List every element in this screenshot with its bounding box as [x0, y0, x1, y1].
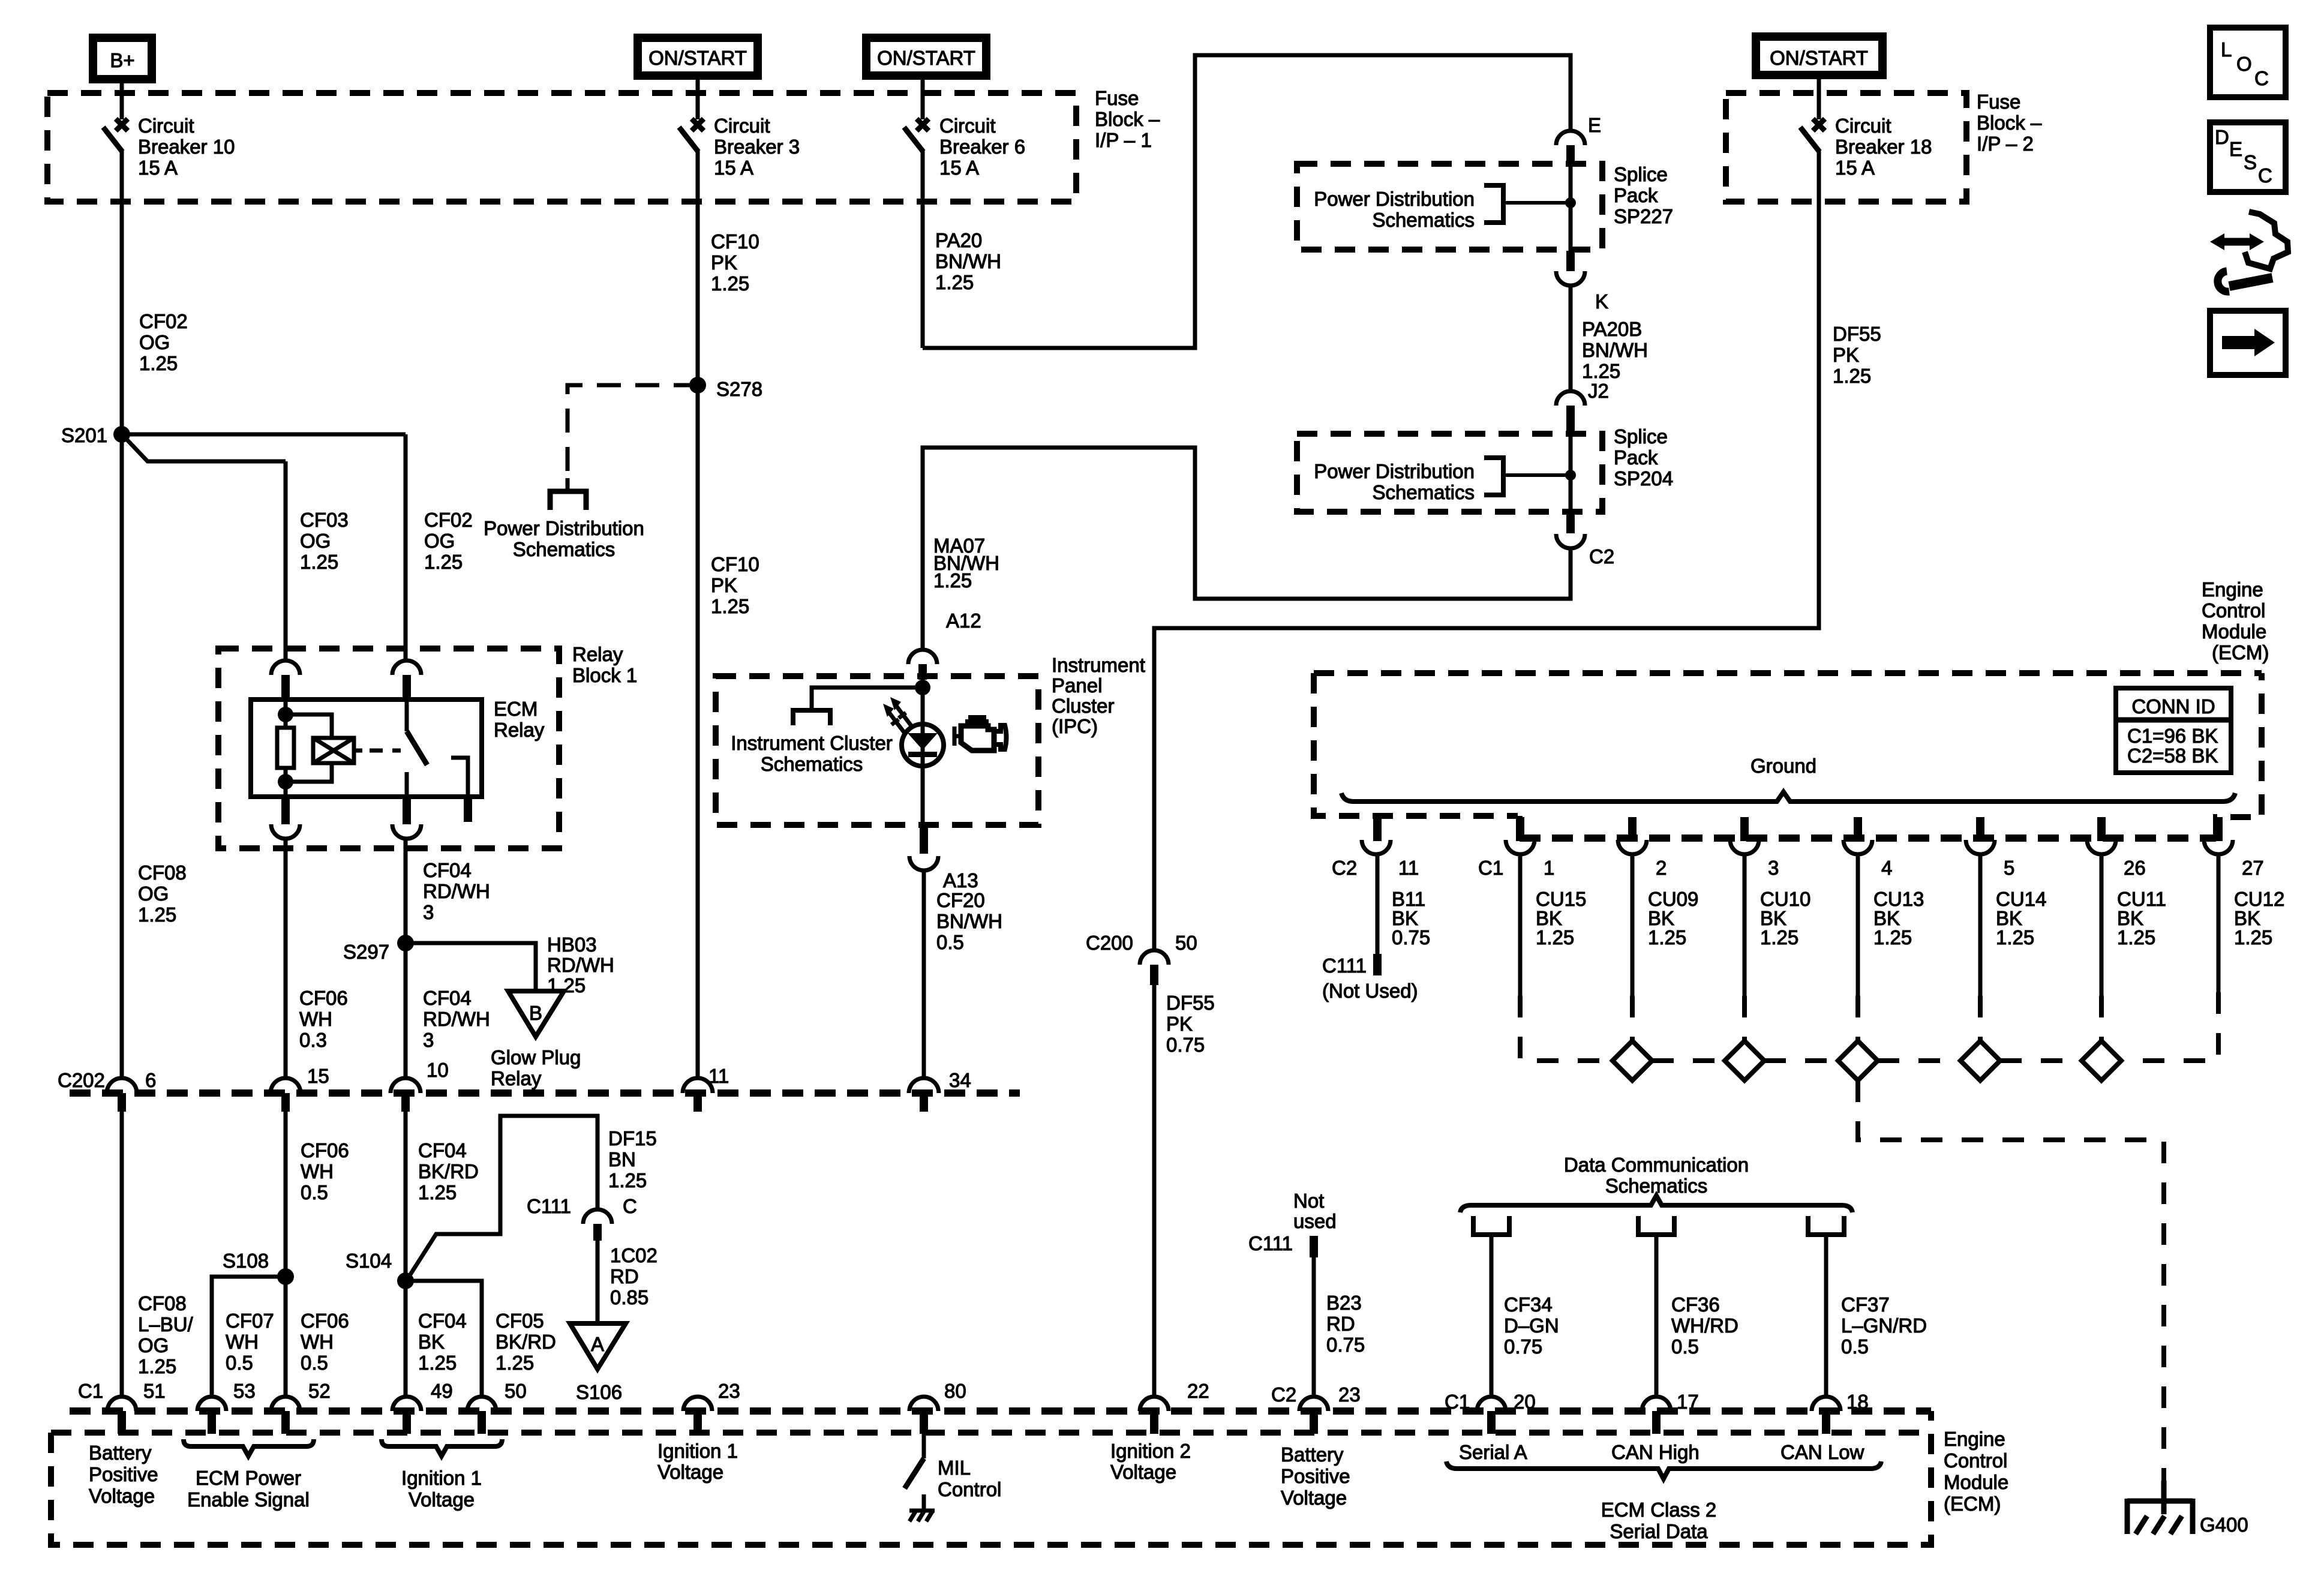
svg-text:S108: S108 — [223, 1250, 269, 1272]
LED cathode bar — [908, 752, 937, 757]
svg-text:G400: G400 — [2200, 1514, 2248, 1536]
relay switch blade — [407, 731, 427, 765]
MIL indicator LED circle — [902, 724, 944, 766]
connector pin into relay (CF02 side) — [392, 661, 421, 700]
connector J2 — [1556, 391, 1585, 434]
svg-text:Enable Signal: Enable Signal — [187, 1488, 310, 1511]
wire CF03 OG down to relay block — [284, 461, 288, 661]
svg-text:E: E — [1588, 114, 1601, 136]
reference fork symbol (IPC) — [793, 710, 830, 725]
svg-text:C1: C1 — [78, 1380, 103, 1402]
relay coil feed wire — [284, 700, 288, 728]
connector pin out of relay (switch output) — [392, 798, 421, 839]
connector C1 pin 51 — [107, 1397, 136, 1434]
svg-text:C202: C202 — [58, 1069, 105, 1091]
brace ECM class 2 serial data — [1446, 1461, 1881, 1479]
connector C202 pin 6 — [107, 1078, 137, 1112]
svg-text:Ground: Ground — [1750, 755, 1816, 777]
svg-text:ECM Power: ECM Power — [196, 1467, 301, 1489]
icon forward arrow box — [2210, 311, 2286, 375]
svg-text:C: C — [2254, 67, 2269, 89]
svg-text:E: E — [2229, 138, 2242, 160]
connector C1 pin 80 — [909, 1397, 938, 1434]
wire CF04 BK S104 to pin 49 — [404, 1281, 408, 1397]
LED light arrows — [883, 697, 912, 733]
svg-text:Serial A: Serial A — [1459, 1441, 1527, 1463]
connector pin into relay (CF03 side) — [271, 661, 300, 700]
connector C1 pin 23 — [683, 1397, 712, 1434]
wire CF34 D-GN to pin 20 — [1490, 1235, 1494, 1397]
splice diamond pin 26 — [2082, 1041, 2121, 1080]
B11 end stub — [1373, 954, 1382, 975]
svg-text:51: 51 — [143, 1380, 166, 1402]
circuit breaker 6 — [904, 79, 929, 202]
svg-text:49: 49 — [431, 1380, 453, 1402]
reference fork serial A — [1473, 1216, 1509, 1235]
connector C202 row — [70, 1089, 1020, 1097]
CONN ID box — [2116, 688, 2231, 773]
svg-text:ON/START: ON/START — [1770, 47, 1868, 69]
svg-text:18: 18 — [1846, 1391, 1869, 1413]
svg-text:34: 34 — [949, 1069, 971, 1091]
connector C202 pin 10 — [391, 1078, 421, 1112]
reference fork CAN high — [1638, 1216, 1674, 1235]
reference fork CAN low — [1808, 1216, 1844, 1235]
junction dot SP227 — [1565, 197, 1576, 208]
power terminal ON/START (circuit breaker 18 feed) — [1756, 37, 1882, 75]
wire CF06 WH pin 15 to S108 — [284, 1112, 288, 1277]
svg-text:80: 80 — [944, 1380, 966, 1402]
wire CF02 OG from breaker 10 down to S201 — [120, 202, 124, 434]
wire CF08 OG from S201 down to C202 pin 6 — [120, 434, 124, 1079]
ECM relay box — [251, 700, 482, 797]
circuit breaker 3 — [679, 79, 704, 202]
brace ground — [1341, 792, 2235, 801]
junction dot SP204 — [1565, 470, 1576, 481]
svg-text:A13: A13 — [943, 869, 978, 891]
svg-text:17: 17 — [1677, 1391, 1699, 1413]
circuit breaker 18 — [1800, 79, 1825, 202]
MIL internal ground — [909, 1511, 935, 1521]
connector K — [1556, 251, 1585, 286]
svg-text:C2=58 BK: C2=58 BK — [2127, 745, 2218, 767]
splice node S201 — [113, 426, 130, 443]
svg-text:O: O — [2236, 53, 2252, 75]
svg-text:26: 26 — [2124, 857, 2146, 879]
svg-text:15: 15 — [307, 1065, 329, 1087]
svg-text:C: C — [623, 1195, 637, 1217]
connector C1 pin 52 — [271, 1397, 300, 1434]
svg-text:CAN High: CAN High — [1611, 1441, 1700, 1463]
connector C1 pin 3 — [1730, 817, 1759, 854]
connector C2 pin 11 (ground) — [1362, 817, 1391, 854]
wire S201 diagonal to CF03 branch — [124, 437, 286, 461]
wire CF04 RD/WH relay to S297 — [404, 839, 408, 1079]
wire CU09 BK pin 2 — [1631, 854, 1635, 996]
wire CU14 BK pin 5 — [1978, 854, 1983, 996]
connector C1 pin 22 — [1140, 1397, 1169, 1434]
connector C1 pin 20 — [1477, 1397, 1506, 1434]
wire CF04 BK/RD pin 10 to S104 — [404, 1112, 408, 1281]
circuit breaker 10 — [103, 79, 128, 202]
brace Ignition 1 — [382, 1439, 502, 1456]
svg-text:C2: C2 — [1589, 545, 1614, 568]
svg-text:L: L — [2221, 38, 2232, 61]
mechanical link dashed — [370, 749, 401, 753]
connector C1 pin 4 — [1843, 817, 1872, 854]
svg-text:EngineControlModule(ECM): EngineControlModule(ECM) — [2202, 578, 2269, 664]
svg-text:C1: C1 — [1445, 1391, 1470, 1413]
connector C1 row (bottom) — [70, 1407, 1931, 1415]
svg-text:6: 6 — [145, 1069, 156, 1091]
resistor element in relay — [277, 728, 294, 768]
svg-text:EngineControlModule(ECM): EngineControlModule(ECM) — [1944, 1428, 2008, 1515]
svg-text:Voltage: Voltage — [409, 1488, 475, 1511]
wire through SP227 — [1569, 165, 1573, 251]
ground drop wire to G400 — [1858, 1080, 2164, 1488]
wire PA20 BN/WH breaker 6 down and right — [921, 202, 925, 348]
connector C202 pin 11 — [683, 1078, 713, 1112]
wire S104 staircase to connector C111 pin C — [409, 1116, 597, 1277]
instrument panel cluster dashed box — [716, 676, 1038, 825]
svg-text:B+: B+ — [110, 49, 134, 71]
splice pack SP227 dashed box — [1297, 164, 1602, 250]
brace data communication — [1460, 1196, 1852, 1212]
connector C1 pin 2 — [1618, 817, 1647, 854]
svg-text:5: 5 — [2004, 857, 2014, 879]
wire CF36 WH/RD to pin 17 — [1655, 1235, 1659, 1397]
connector C1 pin 49 — [392, 1397, 421, 1434]
connector C1 pin 5 — [1966, 817, 1995, 854]
splice diamond pin 2 — [1613, 1041, 1652, 1080]
relay NO pin bar — [464, 797, 472, 822]
svg-text:1: 1 — [1544, 857, 1554, 879]
engine icon — [954, 718, 1007, 751]
splice node S108 — [277, 1268, 294, 1285]
IPC wire LED to A13 — [921, 678, 925, 824]
splice node S278 — [689, 377, 706, 394]
svg-text:23: 23 — [1338, 1383, 1361, 1406]
svg-text:Data Communication: Data Communication — [1564, 1154, 1749, 1176]
wire return from C2 to MA07 — [923, 448, 1571, 650]
ECM ground dashed box — [1314, 673, 2262, 836]
power terminal ON/START (circuit breaker 3 feed) — [638, 38, 758, 76]
relay NO contact L wire — [451, 758, 468, 797]
svg-text:C200: C200 — [1086, 932, 1133, 954]
svg-text:10: 10 — [427, 1059, 449, 1081]
wire CU15 BK pin 1 — [1518, 854, 1523, 996]
fuse block I/P-1 dashed box — [47, 93, 1076, 202]
wire CF37 L-GN/RD to pin 18 — [1824, 1235, 1828, 1397]
MIL control switch — [905, 1434, 924, 1512]
splice node S297 — [397, 935, 414, 951]
svg-text:A12: A12 — [946, 610, 981, 632]
svg-text:K: K — [1595, 290, 1608, 313]
splice diamond pin 4 — [1838, 1041, 1878, 1080]
junction dot coil top — [278, 707, 293, 722]
connector C202 pin 34 — [909, 1078, 939, 1112]
wire CU11 BK pin 26 — [2100, 854, 2104, 996]
ECM ground connector fine row — [1520, 834, 2216, 842]
dashed reference spur from S278 — [568, 385, 698, 480]
svg-text:53: 53 — [233, 1380, 256, 1402]
brace ECM power enable — [184, 1439, 314, 1456]
svg-text:D: D — [2215, 126, 2229, 148]
SP227 internal wire to bracket — [1503, 201, 1571, 205]
wire PA20B BN/WH between splice packs — [1569, 286, 1573, 391]
ECM bottom dashed box — [51, 1411, 1931, 1545]
connector C2 (splice chain) — [1556, 513, 1585, 548]
svg-text:S201: S201 — [61, 424, 107, 446]
wire HB03 from S297 to glow plug triangle — [406, 943, 536, 991]
fuse block I/P-2 dashed box — [1726, 93, 1966, 202]
wire CF10 PK breaker 3 to S278 — [696, 202, 700, 385]
SP227 reference bracket — [1484, 185, 1503, 223]
ground symbol G400 — [2127, 1481, 2193, 1534]
connector C1 pin 17 — [1642, 1397, 1671, 1434]
svg-text:52: 52 — [308, 1380, 331, 1402]
svg-text:C2: C2 — [1332, 857, 1357, 879]
relay switch common wire — [405, 700, 409, 731]
svg-text:C: C — [2258, 164, 2272, 187]
SP204 internal wire to bracket — [1503, 473, 1571, 477]
wire CF06 WH S108 to pin 52 — [284, 1277, 288, 1397]
svg-text:20: 20 — [1514, 1391, 1536, 1413]
wire CU13 BK pin 4 — [1856, 854, 1860, 996]
connector C200 — [1140, 950, 1169, 985]
power terminal ON/START (circuit breaker 6 feed) — [866, 38, 986, 76]
svg-text:3: 3 — [1768, 857, 1779, 879]
svg-text:S278: S278 — [716, 378, 762, 400]
junction dot coil bottom — [278, 774, 293, 789]
icon DESC box — [2210, 122, 2286, 192]
svg-text:2: 2 — [1656, 857, 1667, 879]
svg-text:BatteryPositiveVoltage: BatteryPositiveVoltage — [89, 1442, 158, 1507]
wire S108 branch to pin 53 — [212, 1277, 286, 1397]
wire through SP204 — [1569, 434, 1573, 513]
connector C1 pin 50 — [467, 1397, 496, 1434]
wire B23 RD to C2 pin 23 — [1312, 1257, 1316, 1397]
connector C1 pin 26 — [2087, 817, 2116, 854]
icon LOC box — [2210, 28, 2286, 97]
svg-text:CAN Low: CAN Low — [1780, 1441, 1864, 1463]
junction dot in IPC — [915, 680, 930, 695]
svg-text:C2: C2 — [1271, 1383, 1296, 1406]
relay coil ground wire — [284, 768, 288, 797]
svg-text:Serial Data: Serial Data — [1610, 1520, 1708, 1542]
svg-text:C111: C111 — [527, 1195, 571, 1217]
connector C1 pin 53 — [197, 1397, 226, 1434]
wire CF06 WH relay to C202 pin 15 — [284, 839, 288, 1079]
svg-text:S: S — [2244, 151, 2257, 173]
splice diamond pin 5 — [1960, 1041, 2000, 1080]
wire CU10 BK pin 3 — [1743, 854, 1747, 996]
svg-text:BatteryPositiveVoltage: BatteryPositiveVoltage — [1281, 1443, 1350, 1509]
wire B11 BK pin 11 — [1376, 854, 1380, 954]
IPC internal wire to junction — [921, 678, 925, 728]
splice diamond pin 3 — [1725, 1041, 1764, 1080]
connector C2 pin 23 — [1299, 1397, 1328, 1434]
wire from S201 right to CF02 branch — [122, 433, 406, 437]
relay block 1 dashed box — [218, 649, 559, 848]
connector C1 pin 1 — [1506, 817, 1535, 854]
C111 stub bar — [1310, 1236, 1318, 1257]
wire DF55 PK breaker 18 down, left and to C200 — [1154, 202, 1819, 950]
connector A12 — [908, 650, 937, 680]
svg-text:ECM Class 2: ECM Class 2 — [1601, 1499, 1717, 1521]
svg-text:A: A — [591, 1333, 604, 1355]
SP204 reference bracket — [1484, 458, 1503, 495]
svg-text:C111: C111 — [1248, 1232, 1293, 1254]
svg-text:B: B — [529, 1002, 542, 1024]
connector A13 — [909, 825, 938, 870]
svg-text:ON/START: ON/START — [877, 47, 975, 69]
svg-text:11: 11 — [1398, 857, 1419, 879]
reference fork symbol — [550, 478, 586, 510]
svg-text:11: 11 — [708, 1065, 729, 1087]
wire CF10 PK S278 to C202 pin 11 — [696, 385, 700, 1079]
svg-text:22: 22 — [1187, 1380, 1209, 1402]
connector E — [1556, 131, 1585, 165]
svg-text:4: 4 — [1881, 857, 1892, 879]
svg-text:CONN ID: CONN ID — [2131, 695, 2215, 718]
wire CF02 OG down to relay block — [404, 434, 408, 661]
svg-text:C1=96 BK: C1=96 BK — [2127, 725, 2218, 747]
splice node S104 — [397, 1272, 414, 1289]
svg-text:27: 27 — [2242, 857, 2264, 879]
connector C1 pin 27 — [2204, 817, 2233, 854]
svg-text:Ignition 1: Ignition 1 — [401, 1467, 482, 1489]
wire CF05 BK/RD S104 branch to pin 50 — [406, 1281, 482, 1397]
wire CF08 L-BU/OG pin 6 to pin 51 — [120, 1112, 124, 1397]
connector C111 pin C — [583, 1209, 612, 1241]
svg-text:S106: S106 — [576, 1381, 622, 1403]
LED diode triangle — [908, 733, 938, 750]
svg-text:23: 23 — [718, 1380, 740, 1402]
svg-text:ON/START: ON/START — [648, 47, 747, 69]
svg-text:ECMRelay: ECMRelay — [494, 698, 545, 741]
coil branch wires — [286, 715, 332, 738]
connector C1 pin 18 — [1812, 1397, 1840, 1434]
svg-text:S297: S297 — [343, 941, 389, 963]
off-page triangle B (glow plug relay) — [508, 991, 564, 1037]
svg-text:S104: S104 — [346, 1250, 392, 1272]
power terminal B+ — [93, 38, 152, 79]
mechanical link stub — [354, 749, 362, 753]
off-page triangle A (S106) — [570, 1323, 626, 1369]
connector pin out of relay (coil ground) — [271, 798, 300, 839]
relay coil box with X — [313, 738, 354, 763]
wire DF55 PK C200 to C1 pin 22 — [1152, 985, 1157, 1397]
wire CU12 BK pin 27 — [2217, 854, 2221, 992]
svg-text:50: 50 — [505, 1380, 527, 1402]
wire CF20 BN/WH A13 to C202 pin 34 — [922, 870, 926, 1079]
svg-text:J2: J2 — [1588, 380, 1609, 402]
wire 1C02 RD to triangle A — [596, 1241, 600, 1323]
ground bus dashed segments — [1652, 1058, 1725, 1063]
icon wrench and arrow — [2210, 212, 2288, 292]
IPC branch wire to reference fork — [812, 688, 923, 710]
svg-text:C1: C1 — [1478, 857, 1503, 879]
connector C202 pin 15 — [271, 1078, 301, 1112]
splice pack SP204 dashed box — [1297, 434, 1602, 512]
svg-text:50: 50 — [1175, 932, 1197, 954]
wire PA20 feed up-over to splice pack E — [923, 55, 1571, 348]
relay switch contact wire — [405, 772, 409, 797]
